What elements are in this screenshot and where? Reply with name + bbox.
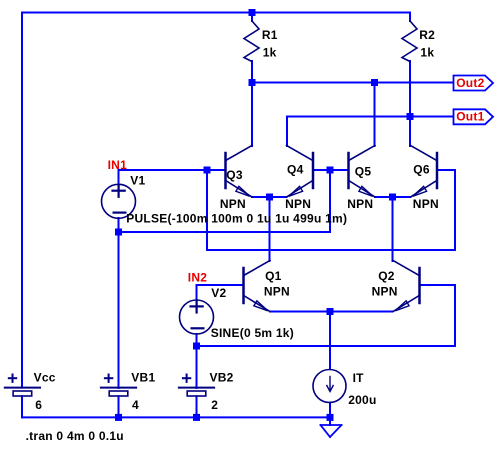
wire Vcc bottom — [21, 396, 23, 417]
wire Out2 horizontal — [252, 82, 453, 84]
wire Q4 collector vertical — [286, 117, 288, 147]
wire IT top vertical — [329, 312, 331, 370]
svg-text:Out2: Out2 — [456, 76, 484, 90]
svg-text:NPN: NPN — [220, 197, 246, 211]
transistor Q4 — [287, 146, 314, 198]
wire bottom ground rail — [22, 416, 330, 418]
wire IN1 long horizontal — [207, 249, 455, 251]
wire VB1 bottom stub — [118, 396, 120, 417]
wire Q1 collector vertical — [269, 197, 271, 261]
wire V2 bottom to VB2 — [196, 334, 198, 388]
wire Q1-Q2 emitter link — [270, 311, 393, 313]
wire IN2 horizontal to Q1 base — [197, 284, 243, 286]
wire Q3 collector vertical — [251, 83, 253, 147]
svg-text:NPN: NPN — [285, 197, 311, 211]
transistor Q5 — [349, 146, 376, 198]
svg-text:NPN: NPN — [372, 284, 398, 298]
svg-text:VB2: VB2 — [210, 371, 234, 385]
svg-text:Q5: Q5 — [355, 164, 372, 178]
transistor Q6 — [411, 146, 438, 198]
wire right riser to Q6 base — [454, 170, 456, 250]
svg-text:Out1: Out1 — [456, 110, 484, 124]
wire Q6 collector vertical — [409, 117, 411, 147]
wire top rail — [22, 12, 410, 14]
wire Out1 horizontal — [287, 116, 453, 118]
svg-text:NPN: NPN — [347, 197, 373, 211]
svg-text:Q6: Q6 — [413, 163, 430, 177]
wire Q2 collector vertical — [392, 197, 394, 261]
wire V1 bottom stub — [118, 218, 120, 232]
node junction dots — [115, 9, 414, 421]
wire R2 bottom to Out1 — [409, 61, 411, 117]
svg-text:.tran 0 4m 0 0.1u: .tran 0 4m 0 0.1u — [26, 429, 124, 443]
net flag Out1 — [454, 109, 494, 124]
voltage source V1 — [102, 184, 136, 218]
svg-text:Q2: Q2 — [378, 269, 395, 283]
svg-text:Q4: Q4 — [287, 163, 304, 177]
svg-text:R1: R1 — [262, 28, 278, 42]
resistor R1 — [244, 21, 259, 62]
svg-text:V2: V2 — [211, 286, 226, 300]
wire left rail (Vcc to top) — [21, 13, 23, 388]
svg-text:IN1: IN1 — [108, 158, 128, 172]
transistor Q3 — [226, 146, 253, 198]
wire V1minus to VB1 — [118, 232, 120, 388]
wire VB2 net horizontal — [197, 345, 456, 347]
wire IN1 vertical down — [206, 170, 208, 250]
svg-text:NPN: NPN — [413, 197, 439, 211]
current source IT — [313, 370, 346, 403]
wire V1 top stub — [118, 170, 120, 185]
wire IT bottom stub — [329, 403, 331, 426]
svg-text:VB1: VB1 — [131, 371, 155, 385]
svg-text:NPN: NPN — [264, 284, 290, 298]
wire Q4-Q5 base link — [314, 169, 348, 171]
svg-text:6: 6 — [35, 398, 42, 412]
wire Q6 base stub — [438, 169, 455, 171]
battery VB1 — [101, 375, 136, 397]
wire VB2 bottom stub — [196, 396, 198, 417]
battery Vcc — [5, 375, 40, 397]
resistor R2 — [402, 21, 417, 62]
wire V2 top stub — [196, 285, 198, 300]
transistor Q2 — [393, 261, 420, 312]
battery VB2 — [179, 375, 214, 397]
wire Q2 base stub — [421, 284, 456, 286]
wire Q4Q5 base vertical down — [329, 170, 331, 232]
svg-text:V1: V1 — [130, 173, 145, 187]
wire IN1 horizontal to Q3 base — [119, 169, 225, 171]
wire V1minus horizontal — [119, 231, 331, 233]
net flag Out2 — [454, 76, 494, 91]
svg-text:Q3: Q3 — [226, 168, 243, 182]
wire Q5 collector vertical — [374, 83, 376, 147]
wire Q3-Q4 emitter link — [252, 196, 287, 198]
svg-text:200u: 200u — [348, 393, 376, 407]
wire R1 top stub — [251, 13, 253, 22]
wire R1 bottom to Out2 — [251, 61, 253, 83]
svg-text:1k: 1k — [420, 45, 434, 59]
svg-text:Q1: Q1 — [265, 269, 282, 283]
svg-text:SINE(0 5m 1k): SINE(0 5m 1k) — [211, 326, 294, 340]
wire Q5-Q6 emitter link — [375, 196, 411, 198]
wire Q2 base vertical — [454, 285, 456, 346]
voltage source V2 — [180, 300, 214, 334]
svg-text:Vcc: Vcc — [34, 371, 56, 385]
svg-text:IN2: IN2 — [188, 271, 208, 285]
svg-text:2: 2 — [211, 398, 218, 412]
transistor Q1 — [244, 261, 271, 312]
svg-text:1k: 1k — [263, 45, 277, 59]
wire R2 top stub — [409, 13, 411, 22]
svg-text:IT: IT — [353, 371, 365, 385]
svg-text:4: 4 — [132, 398, 139, 412]
svg-text:PULSE(-100m 100m 0 1u 1u 499u: PULSE(-100m 100m 0 1u 1u 499u 1m) — [126, 212, 347, 226]
ground — [321, 425, 342, 437]
svg-text:R2: R2 — [419, 28, 435, 42]
